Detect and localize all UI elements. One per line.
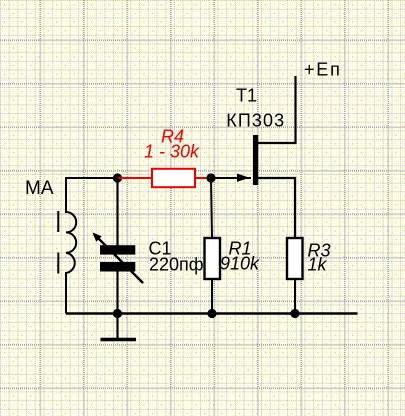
svg-text:КП303: КП303 [226,111,284,131]
transistor T1 channel bar [253,135,258,185]
wire node B down to R1 [211,178,212,238]
wire node B to gate of T1 [211,177,251,179]
inductor L (magnetic antenna, coil with core) [58,211,76,274]
wire node A to R4 (red) [118,177,153,179]
svg-text:MA: MA [25,178,54,199]
svg-text:+Еп: +Еп [304,60,342,80]
wire C1 to ground rail [116,271,118,314]
wire source of T1 down to R3 [257,178,295,238]
ground rail wire [66,312,358,314]
ground symbol [101,338,137,342]
wire R1 to ground rail [211,279,213,314]
junction C1 / rail [113,309,122,318]
svg-text:1 - 30k: 1 - 30k [144,142,200,162]
wire node A down to C1 [116,178,118,246]
svg-text:220пф: 220пф [149,255,204,275]
wire inductor top lead [65,178,67,213]
wire inductor bottom lead [65,272,67,314]
junction R3 / rail [290,309,299,318]
svg-text:910k: 910k [220,254,260,274]
resistor R4 [152,169,195,187]
junction node B [206,173,215,182]
gate arrow of T1 [237,174,250,182]
wire junction to ground symbol [116,314,118,339]
wire R4 to node B (red) [195,177,211,179]
resistor R3 [287,238,303,279]
wire drain of T1 up to +Еп [257,76,296,143]
junction node A [113,173,122,182]
svg-text:T1: T1 [236,86,257,106]
capacitor C1 (variable) plates and arrow [93,233,144,284]
resistor R1 [205,238,221,279]
wire top rail from inductor to node A [65,177,118,179]
wire R3 to ground rail [294,279,296,314]
svg-text:1k: 1k [308,255,328,275]
junction R1 / rail [207,309,216,318]
